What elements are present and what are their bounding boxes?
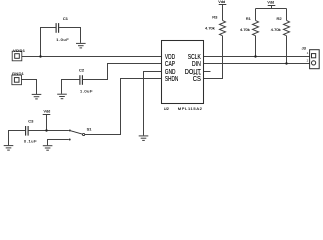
svg-text:C2: C2 bbox=[79, 68, 85, 73]
svg-text:GND1: GND1 bbox=[12, 71, 25, 76]
svg-text:4.70k: 4.70k bbox=[240, 27, 250, 32]
svg-text:R3: R3 bbox=[212, 15, 218, 20]
svg-text:R1: R1 bbox=[246, 16, 252, 21]
svg-text:MPL115A2: MPL115A2 bbox=[178, 106, 203, 111]
svg-text:U2: U2 bbox=[164, 106, 170, 111]
svg-text:VDD1: VDD1 bbox=[13, 48, 26, 53]
svg-text:Vdd: Vdd bbox=[267, 1, 274, 5]
svg-text:4.70k: 4.70k bbox=[271, 27, 281, 32]
svg-text:CAP: CAP bbox=[165, 61, 175, 68]
svg-text:0.1uF: 0.1uF bbox=[24, 138, 37, 143]
svg-text:C3: C3 bbox=[28, 118, 34, 123]
svg-text:GND: GND bbox=[165, 69, 176, 76]
svg-text:SHDN: SHDN bbox=[165, 76, 178, 83]
svg-text:CS: CS bbox=[193, 76, 201, 83]
svg-text:VDD: VDD bbox=[165, 54, 175, 61]
svg-text:Vdd: Vdd bbox=[218, 0, 225, 4]
svg-text:S1: S1 bbox=[87, 126, 93, 131]
svg-text:Vdd: Vdd bbox=[44, 110, 51, 114]
svg-text:C1: C1 bbox=[63, 16, 69, 21]
svg-text:1.0uF: 1.0uF bbox=[80, 88, 93, 93]
svg-text:R2: R2 bbox=[277, 16, 283, 21]
svg-text:1.0uF: 1.0uF bbox=[56, 37, 69, 42]
svg-text:4.70k: 4.70k bbox=[205, 26, 215, 31]
svg-text:DOUT: DOUT bbox=[185, 69, 202, 76]
svg-text:SCLK: SCLK bbox=[188, 54, 201, 61]
svg-text:DIN: DIN bbox=[192, 61, 201, 68]
